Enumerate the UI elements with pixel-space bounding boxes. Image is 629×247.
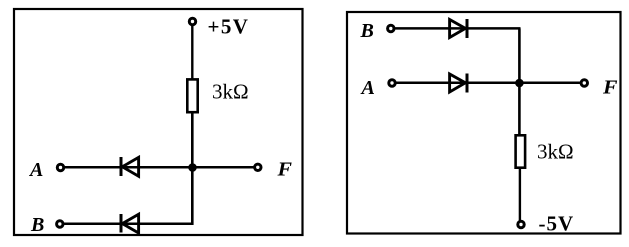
terminal A (right) [389,80,395,86]
wire input B to elbow [63,222,194,225]
wire input A to node N2 [395,82,519,85]
diode D2 (input B, cathode left) [121,214,139,233]
svg-text:-5V: -5V [539,212,575,236]
terminal A (left) [57,164,63,170]
node N1 junction dot [188,163,197,172]
left circuit frame [14,9,303,235]
svg-text:B: B [360,20,374,42]
right circuit frame [347,12,621,234]
terminal B (right) [388,25,394,31]
wire node N2 to output F (right) [519,82,581,85]
diode D1 (input A, cathode left) [121,157,139,176]
svg-text:3kΩ: 3kΩ [212,80,249,104]
svg-text:A: A [28,159,43,181]
terminal F (left) [255,164,261,170]
wire elbow down to node N2 [518,28,521,83]
resistor R2 3kOhm [516,135,526,167]
terminal F (right) [581,80,587,86]
terminal +5V [189,18,195,24]
svg-text:A: A [360,77,375,99]
svg-text:F: F [602,77,618,99]
wire node N1 down to B branch [191,168,194,225]
terminal -5V [518,221,524,227]
resistor R1 3kOhm [187,79,197,112]
svg-text:+5V: +5V [208,15,250,39]
node N2 junction dot [515,79,524,88]
wire node N2 to resistor R2 [518,83,521,136]
wire node N1 to output F (left) [193,166,255,169]
svg-text:F: F [276,159,292,181]
diode D4 (input A, anode left) [450,74,467,93]
wire resistor R1 to node N1 [191,112,194,168]
terminal B (left) [57,221,63,227]
svg-text:B: B [30,214,44,236]
wire input A to node N1 [64,166,193,169]
diode D3 (input B, anode left) [450,19,467,38]
svg-text:3kΩ: 3kΩ [537,140,574,164]
wire +5V to resistor R1 [191,25,193,80]
wire resistor R2 to -5V terminal [519,168,521,222]
wire input B to elbow (right) [394,27,521,30]
